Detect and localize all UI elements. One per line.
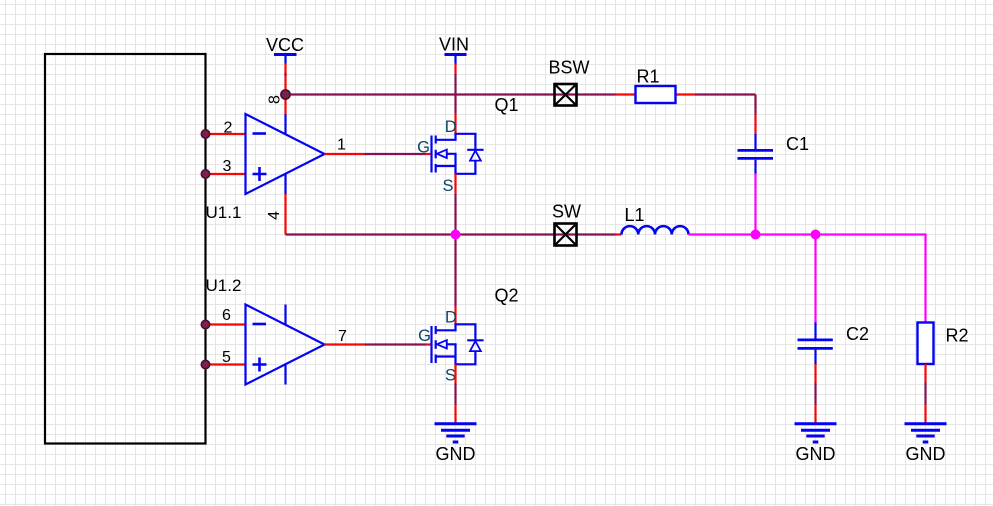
- label L1: [624, 205, 644, 225]
- pin name G Q2: [418, 327, 431, 345]
- wire pin 5: [201, 360, 245, 368]
- wire Q1 source to SW node: [454, 174, 456, 235]
- svg-text:D: D: [445, 309, 457, 327]
- pin number 4: [266, 211, 283, 220]
- power port VCC: [274, 55, 297, 115]
- label BSW: [548, 58, 589, 78]
- svg-text:BSW: BSW: [548, 58, 589, 78]
- pin name S Q1: [443, 177, 454, 195]
- pin name D Q1: [445, 118, 457, 136]
- pin number 5: [222, 349, 231, 366]
- svg-text:5: 5: [222, 349, 231, 366]
- label C1: [786, 134, 809, 154]
- svg-text:GND: GND: [906, 444, 946, 464]
- svg-text:R2: R2: [946, 326, 969, 346]
- test point BSW: [555, 84, 577, 106]
- svg-text:Q2: Q2: [495, 286, 519, 306]
- wire U1.1 output to Q1 gate: [365, 153, 431, 155]
- capacitor C2: [798, 323, 833, 365]
- wire pin 7 output U1.2: [325, 343, 365, 345]
- capacitor C1: [738, 134, 774, 174]
- label C2: [846, 324, 869, 344]
- label GND under R2: [906, 444, 946, 464]
- svg-text:U1.1: U1.1: [206, 203, 242, 222]
- pin number 6: [222, 307, 231, 324]
- svg-text:R1: R1: [636, 67, 659, 87]
- svg-text:GND: GND: [436, 444, 476, 464]
- svg-text:Q1: Q1: [495, 95, 519, 115]
- wire pin 3: [201, 170, 245, 178]
- wire VCC net horizontal: [286, 95, 756, 135]
- svg-text:6: 6: [222, 307, 231, 324]
- label SW: [552, 202, 581, 222]
- wire U1.2 output to Q2 gate: [365, 343, 431, 345]
- pin number 2: [224, 120, 233, 137]
- label Q2: [495, 286, 519, 306]
- label GND under Q2: [436, 444, 476, 464]
- power port VIN: [445, 55, 467, 75]
- node SW junction: [451, 230, 461, 240]
- pin name S Q2: [445, 367, 456, 385]
- svg-text:C2: C2: [846, 324, 869, 344]
- label VCC: [266, 35, 304, 55]
- inductor L1: [622, 226, 689, 234]
- svg-text:G: G: [418, 327, 431, 345]
- wire C1 to SW bus: [754, 174, 756, 235]
- svg-text:S: S: [445, 367, 456, 385]
- wire SW node to Q2 drain: [454, 235, 456, 325]
- label GND under C2: [796, 444, 836, 464]
- pin number 3: [223, 158, 232, 175]
- test point SW: [555, 224, 577, 246]
- transistor Q1: [432, 134, 484, 174]
- svg-text:2: 2: [224, 120, 233, 137]
- pin name D Q2: [445, 309, 457, 327]
- op-amp U1.2: [246, 305, 325, 385]
- svg-text:U1.2: U1.2: [206, 276, 242, 295]
- label U1.1: [206, 203, 242, 222]
- junction node VCC: [281, 90, 290, 99]
- ground GND under Q2: [435, 424, 477, 442]
- label R2: [946, 326, 969, 346]
- wire pin 1 output U1.1: [325, 153, 365, 155]
- svg-text:3: 3: [223, 158, 232, 175]
- pin name G Q1: [417, 139, 430, 157]
- wire pin 6: [201, 320, 245, 328]
- pin number 7: [338, 328, 347, 345]
- wire Q2 source to ground: [454, 364, 456, 423]
- svg-text:D: D: [445, 118, 457, 136]
- wire C2 to ground: [814, 364, 816, 424]
- wire pin 2: [201, 130, 245, 138]
- svg-text:L1: L1: [624, 205, 644, 225]
- op-amp U1.1: [246, 114, 325, 194]
- label Q1: [495, 95, 519, 115]
- resistor R1: [636, 86, 676, 103]
- wire pin 4 U1.1 to SW bus: [284, 194, 286, 235]
- wire VIN to Q1 drain: [454, 74, 456, 134]
- svg-text:C1: C1: [786, 134, 809, 154]
- label VIN: [439, 35, 469, 55]
- wire C2 to SW bus: [814, 235, 816, 323]
- ground GND under C2: [795, 424, 837, 442]
- svg-text:4: 4: [266, 211, 283, 220]
- svg-text:S: S: [443, 177, 454, 195]
- resistor R2: [918, 323, 934, 365]
- pin number 1: [337, 137, 346, 154]
- label R1: [636, 67, 659, 87]
- svg-text:VCC: VCC: [266, 35, 304, 55]
- svg-text:SW: SW: [552, 202, 581, 222]
- junction C2 node: [811, 230, 821, 240]
- wire SW bus maroon: [286, 233, 622, 235]
- svg-text:VIN: VIN: [439, 35, 469, 55]
- svg-text:7: 7: [338, 328, 347, 345]
- svg-text:GND: GND: [796, 444, 836, 464]
- svg-text:1: 1: [337, 137, 346, 154]
- label U1.2: [206, 276, 242, 295]
- wire SW output net magenta: [689, 235, 926, 323]
- junction C1 node: [751, 230, 761, 240]
- ground GND under R2: [905, 424, 947, 442]
- IC body U1 rectangle: [45, 54, 206, 444]
- wire R2 to ground: [924, 364, 926, 424]
- pin number 8: [267, 95, 284, 104]
- transistor Q2: [432, 324, 484, 364]
